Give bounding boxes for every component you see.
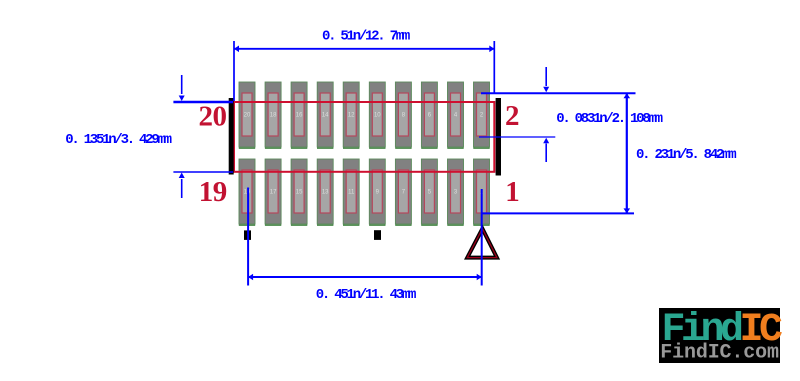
svg-text:11: 11: [348, 190, 355, 196]
svg-text:0. 451n/11. 43mm: 0. 451n/11. 43mm: [316, 287, 416, 303]
svg-text:FindIC.com: FindIC.com: [660, 342, 779, 365]
svg-text:17: 17: [270, 190, 277, 196]
svg-text:14: 14: [322, 113, 329, 119]
svg-text:19: 19: [199, 176, 227, 208]
svg-text:20: 20: [244, 113, 251, 119]
svg-text:16: 16: [296, 113, 303, 119]
svg-text:12: 12: [348, 113, 355, 119]
svg-text:10: 10: [374, 113, 381, 119]
svg-text:15: 15: [296, 190, 303, 196]
svg-text:0. 0831n/2. 108mm: 0. 0831n/2. 108mm: [556, 111, 662, 127]
svg-text:0. 1351n/3. 429mm: 0. 1351n/3. 429mm: [65, 132, 171, 148]
svg-text:18: 18: [270, 113, 277, 119]
svg-text:20: 20: [199, 101, 227, 133]
svg-text:0. 231n/5. 842mm: 0. 231n/5. 842mm: [636, 147, 736, 163]
svg-text:2: 2: [505, 100, 519, 132]
svg-text:0. 51n/12. 7mm: 0. 51n/12. 7mm: [322, 28, 410, 44]
svg-text:13: 13: [322, 190, 329, 196]
svg-text:1: 1: [505, 176, 519, 208]
